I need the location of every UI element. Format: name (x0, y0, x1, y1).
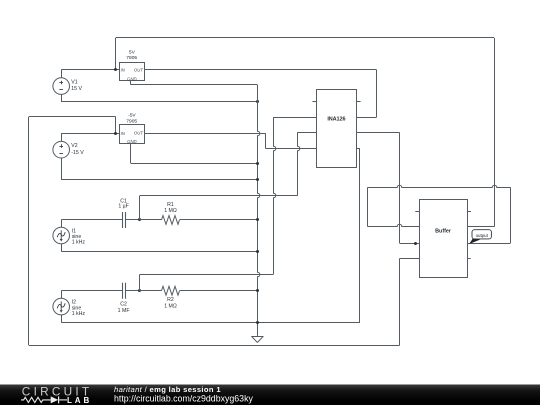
wire 7805 GND to ground bus top (131, 84, 258, 86)
wire I2 to C2 (61, 290, 122, 292)
wire V1 top stub (61, 70, 63, 78)
svg-text:GND: GND (127, 139, 137, 144)
wire I2 bottom stub (61, 315, 63, 323)
voltage source V2 (53, 141, 70, 158)
wire R1 to ground bus (180, 219, 258, 221)
wire +15V rail right vertical down to Buffer V+ (494, 38, 496, 227)
wire into INA126 right pin V+ (357, 117, 377, 119)
svg-text:R1: R1 (167, 202, 174, 208)
wire I2 top stub (61, 291, 63, 299)
wire INA126 REF pin right (357, 148, 360, 150)
wire channel1 signal vertical (hops V- wire) (298, 132, 300, 195)
node flag output pointer (469, 236, 480, 244)
svg-text:C2: C2 (120, 302, 127, 308)
pin tick INA126 top-left (312, 101, 316, 103)
svg-text:R2: R2 (167, 297, 174, 303)
wire INA126 output to right (357, 132, 400, 134)
junction dot at Buffer input (414, 242, 417, 245)
wire Buffer output to right (467, 243, 511, 245)
wire V2 plus to 7905 IN (61, 133, 120, 135)
wire 7905 GND to ground bus (131, 163, 258, 165)
wire Buffer lower-left vertical down (399, 258, 401, 345)
current source I1 (53, 227, 70, 244)
wire INA output vertical down (399, 132, 401, 243)
footer bar (0, 385, 540, 405)
svg-text:Buffer: Buffer (435, 228, 452, 234)
svg-text:7905: 7905 (126, 118, 137, 124)
wire top +15V rail horizontal (116, 37, 494, 39)
wire V2 top stub (61, 133, 63, 141)
wire Buffer lower-left pin (400, 258, 420, 260)
pin tick Buffer top-right (467, 211, 471, 213)
wire V1 minus to ground bus (61, 101, 257, 103)
svg-text:15 V: 15 V (71, 86, 82, 92)
wire output right vertical (510, 187, 512, 243)
junction dot R2 on ground bus (256, 289, 259, 292)
wire 7805 OUT +5V horizontal (144, 69, 377, 71)
voltage source V1 (53, 78, 70, 95)
wire R2 to ground bus (180, 290, 258, 292)
wire I1 minus to ground bus (61, 251, 257, 253)
op-amp U3 INA126 box (317, 90, 357, 168)
regulator U2 7905 box (120, 125, 145, 144)
junction dot I2 minus on ground bus (256, 321, 259, 324)
wire channel2 signal vertical (hops V- wire and ch1 signal) (274, 117, 276, 274)
logo diode symbol (51, 396, 59, 403)
svg-text:INA126: INA126 (327, 117, 345, 123)
junction dot 7905 GND on ground bus (256, 162, 259, 165)
junction dot V1 minus on ground bus (256, 100, 259, 103)
svg-text:GND: GND (127, 76, 137, 81)
svg-text:OUT: OUT (134, 131, 143, 136)
svg-text:output: output (476, 233, 489, 238)
wire feedback into Buffer left pin (hops INA out vertical) (368, 224, 420, 226)
svg-text:V2: V2 (71, 143, 77, 149)
wire V1 plus to 7805 IN (61, 69, 120, 71)
wire 7905 OUT -5V horizontal (144, 133, 265, 135)
wire I1 to C1 (61, 219, 122, 221)
svg-text:5V: 5V (129, 49, 136, 55)
resistor R1 (162, 216, 180, 225)
junction dot R1 on ground bus (256, 218, 259, 221)
wire C2 to node2 (125, 290, 139, 292)
svg-text:1 MΩ: 1 MΩ (164, 208, 177, 214)
wire channel1 signal horizontal (140, 195, 298, 197)
wire -5V jog down (265, 133, 267, 148)
wire feedback top horizontal (hops two verticals) (368, 185, 511, 187)
wire 7805 GND down (130, 81, 132, 85)
wire -15V net top horizontal to outer left (29, 116, 116, 118)
wire node2 to R2 (140, 290, 162, 292)
wire -5V into INA126 left V- pin (265, 148, 316, 150)
junction dot I1 minus on ground bus (256, 250, 259, 253)
wire feedback left vertical (367, 187, 369, 227)
pin tick INA126 top-right (357, 101, 361, 103)
svg-text:LAB: LAB (67, 396, 92, 405)
wire V1 bottom stub (61, 94, 63, 101)
junction dot at 7905 IN (114, 132, 117, 135)
svg-text:7805: 7805 (126, 55, 137, 61)
svg-text:1 MF: 1 MF (118, 308, 130, 314)
capacitor C1 (123, 212, 126, 228)
junction dot node1 (C1/R1) (138, 218, 141, 221)
logo resistor zigzag (21, 397, 51, 402)
svg-text:1 µF: 1 µF (118, 204, 128, 210)
wire top +15V rail vertical from 7805 IN junction (115, 38, 117, 70)
pin tick Buffer bottom-right (467, 258, 471, 260)
wire INA126 REF down to ground wire (359, 148, 361, 322)
junction dot at 7805 IN (114, 68, 117, 71)
wire channel2 signal horizontal (140, 274, 274, 276)
wire channel2 into INA126 IN+ (273, 117, 316, 119)
wire outer left vertical -15V (28, 117, 30, 345)
svg-text:1 kHz: 1 kHz (72, 240, 86, 246)
wire I1 bottom stub (61, 244, 63, 251)
wire node1 to R1 (140, 219, 162, 221)
junction dot V2 minus on ground bus (256, 178, 259, 181)
svg-text:http://circuitlab.com/cz9ddbxy: http://circuitlab.com/cz9ddbxyg63ky (114, 394, 253, 404)
wire node2 riser up (139, 274, 141, 290)
wire ground bus vertical (hops over -5V and both signal risers) (258, 85, 260, 336)
wire node1 riser up (139, 196, 141, 220)
wire I2 minus along bottom to INA ref vertical (61, 322, 360, 324)
wire -15V short vertical into 7905 IN junction (115, 117, 117, 133)
wire V2 bottom stub (61, 158, 63, 180)
wire C1 to node1 (125, 219, 139, 221)
node flag output box (472, 230, 491, 239)
wire +15V into Buffer right pin (467, 226, 494, 228)
svg-text:1 MΩ: 1 MΩ (164, 303, 177, 309)
regulator U1 7805 box (120, 63, 145, 81)
wire +5V down to INA126 V+ (376, 70, 378, 117)
svg-text:-5V: -5V (128, 113, 136, 119)
svg-text:-15 V: -15 V (71, 150, 84, 156)
resistor R2 (162, 286, 180, 295)
svg-text:1 kHz: 1 kHz (72, 311, 86, 317)
wire 7905 GND down (130, 143, 132, 163)
current source I2 (53, 298, 70, 315)
wire channel1 into INA126 IN- (297, 132, 316, 134)
pin tick Buffer top-left (415, 211, 419, 213)
wire V2 minus to ground bus (61, 179, 257, 181)
wire I1 top stub (61, 220, 63, 227)
svg-text:V1: V1 (71, 80, 77, 86)
capacitor C2 (123, 283, 126, 299)
op-amp U4 Buffer box (420, 200, 468, 278)
wire bottom rail (29, 345, 400, 347)
junction dot node2 (C2/R2) (138, 289, 141, 292)
svg-text:OUT: OUT (134, 67, 143, 72)
wire INA output into Buffer input pin (400, 243, 424, 245)
ground (251, 336, 263, 342)
